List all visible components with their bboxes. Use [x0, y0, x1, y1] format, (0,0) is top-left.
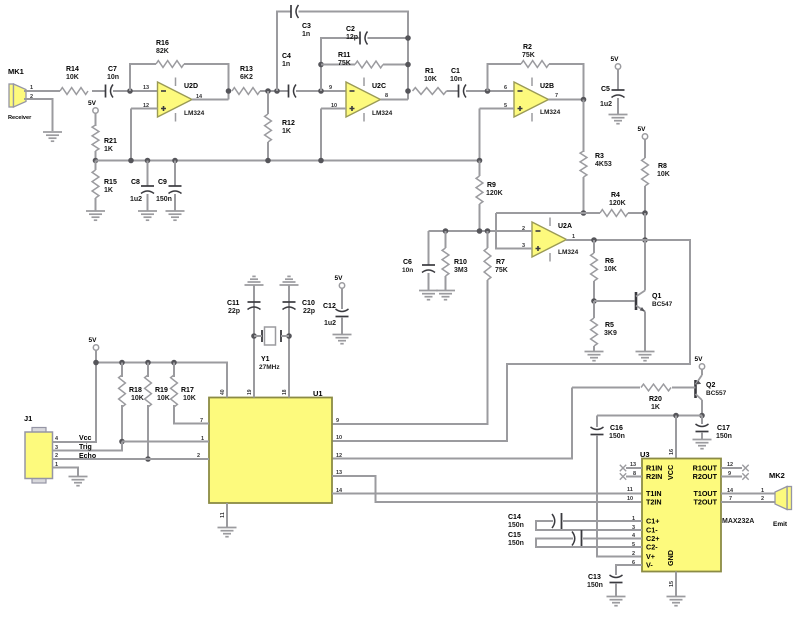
svg-text:10K: 10K [424, 76, 437, 83]
svg-text:Vcc: Vcc [79, 435, 92, 442]
wire U3 C2+ row [583, 538, 642, 540]
wire feedback trunk up from node to R16 row [130, 64, 156, 91]
resistor R16 [156, 61, 184, 68]
junction bus/U2D pin12 [128, 158, 134, 164]
op-amp U2D [158, 82, 193, 117]
svg-text:16: 16 [669, 449, 675, 455]
wire R18 bottom to Trig node [121, 405, 123, 442]
wire Q1 collector up [644, 240, 646, 291]
svg-text:1K: 1K [104, 146, 113, 153]
wire C12 to ground [341, 317, 343, 334]
wire MK1 pin2 down to ground [24, 99, 53, 131]
svg-text:6K2: 6K2 [240, 74, 253, 81]
no-connect X (R2IN) [620, 473, 626, 479]
svg-text:U2A: U2A [558, 223, 572, 230]
wire 5V to R21 [95, 113, 97, 126]
svg-text:7: 7 [729, 496, 732, 502]
svg-text:1: 1 [761, 488, 764, 494]
svg-text:R2OUT: R2OUT [693, 472, 718, 481]
wire R15 to ground [95, 198, 97, 211]
junction R13/R12 [265, 88, 271, 94]
junction output trunk/C2 [405, 35, 411, 41]
wire C4 to U2C pin9 [296, 90, 346, 92]
svg-text:C13: C13 [588, 574, 601, 581]
resistor R11 [355, 61, 383, 68]
wire C1 to U2B pin6 [466, 90, 514, 92]
wire R15 top [95, 161, 97, 171]
svg-text:12: 12 [727, 462, 733, 468]
svg-text:150n: 150n [609, 433, 625, 440]
junction R8/R4 [642, 210, 648, 216]
wire J1 pin3 stub (Trig) [53, 450, 62, 452]
svg-text:14: 14 [727, 488, 734, 494]
wire C14 loop to C1- row [536, 521, 642, 530]
wire 5V to R8 [644, 139, 646, 158]
svg-text:9: 9 [728, 471, 731, 477]
svg-text:T2OUT: T2OUT [693, 498, 717, 507]
svg-text:R4: R4 [611, 192, 620, 199]
svg-text:5V: 5V [89, 337, 98, 344]
wire feedback up to R2 [488, 64, 522, 91]
U3 pin12 stub R1OUT no-connect [721, 467, 742, 469]
U3 pin13 stub R1IN no-connect [626, 467, 642, 469]
ground (Q1) [636, 352, 655, 361]
ground (U3) [667, 597, 686, 606]
svg-text:19: 19 [247, 389, 253, 395]
capacitor C2 [359, 32, 361, 45]
svg-text:150n: 150n [716, 433, 732, 440]
wire R19 bottom to Echo row [147, 405, 149, 459]
wire R12 to bus [267, 142, 269, 161]
capacitor C10 [283, 301, 296, 303]
resistor R13 [232, 88, 260, 95]
wire R14 to C7 [92, 90, 105, 92]
svg-text:R21: R21 [104, 138, 117, 145]
wire route pin12 to R20 [332, 388, 572, 459]
junction R19 top [145, 360, 151, 366]
ground (C6) [419, 291, 438, 300]
junction U2B output/R3 [581, 97, 587, 103]
svg-text:1u2: 1u2 [130, 196, 142, 203]
wire U2D pin12 from bus [131, 108, 158, 110]
svg-text:C12: C12 [323, 303, 336, 310]
svg-text:R2: R2 [523, 44, 532, 51]
wire R7 top lead [487, 231, 489, 248]
capacitor C6 [422, 264, 435, 266]
resistor R4 [600, 210, 628, 217]
ground (C8) [138, 211, 157, 220]
transistor Q1 BC547 [636, 291, 645, 312]
svg-text:GND: GND [666, 550, 675, 566]
inverted ground (C11) [245, 276, 264, 285]
junction R18/Trig [119, 439, 125, 445]
svg-text:Receiver: Receiver [8, 115, 32, 121]
svg-text:10n: 10n [402, 267, 413, 274]
capacitor C5 [612, 89, 625, 91]
svg-text:LM324: LM324 [540, 109, 561, 116]
svg-text:5: 5 [632, 542, 635, 548]
node bias bus left [93, 158, 99, 164]
wire to U1 pin10 (feedback loop right/down) [332, 240, 690, 441]
svg-text:1u2: 1u2 [324, 320, 336, 327]
svg-text:8: 8 [385, 93, 388, 99]
wire U3 C1+ row [563, 520, 642, 522]
U3 pin8 stub R2IN no-connect [626, 476, 642, 478]
svg-text:C3: C3 [302, 23, 311, 30]
wire R4 to R8 trunk [628, 212, 645, 214]
U3 pin9 stub R2OUT no-connect [721, 476, 742, 478]
svg-text:LM324: LM324 [558, 249, 579, 256]
capacitor C9 [169, 185, 182, 187]
wire C9 lead [174, 161, 176, 187]
transistor Q2 BC557 [696, 375, 703, 400]
resistor R19 [145, 375, 152, 407]
wire U1 XTAL2 pin vertical (C10/crystal) [288, 285, 290, 398]
svg-text:C11: C11 [227, 300, 240, 307]
wire U2A- input row [429, 230, 533, 232]
svg-text:VCC: VCC [666, 465, 675, 480]
junction crystal left [251, 333, 257, 339]
svg-text:150n: 150n [508, 522, 524, 529]
junction bus/C9 [172, 158, 178, 164]
wire U2A+ row from R4 node [496, 213, 532, 249]
svg-text:Trig: Trig [79, 444, 92, 451]
svg-text:18: 18 [282, 389, 288, 395]
wire C15 loop to C2- row [536, 539, 642, 548]
wire C6 to ground [428, 273, 430, 290]
svg-text:120K: 120K [486, 190, 503, 197]
svg-text:5V: 5V [335, 275, 344, 282]
capacitor C7 [105, 85, 107, 98]
wire U3 GND pin15 [675, 572, 677, 597]
svg-text:U2B: U2B [540, 83, 554, 90]
svg-text:1K: 1K [651, 404, 660, 411]
supply 5V (R8) [642, 134, 647, 139]
wire J1 pin2 stub (Echo) [53, 458, 62, 460]
no-connect X (R2OUT) [742, 473, 748, 479]
svg-text:C9: C9 [158, 179, 167, 186]
ground (R15) [86, 211, 105, 220]
svg-text:V-: V- [646, 561, 653, 570]
wire 5V to C5 [617, 69, 619, 90]
svg-text:5V: 5V [88, 100, 97, 107]
wire Q2 collector down [701, 400, 703, 416]
svg-text:1K: 1K [104, 187, 113, 194]
wire C8 to ground [147, 194, 149, 211]
svg-text:5V: 5V [638, 126, 647, 133]
wire U1 pin13 to U3 T2IN [332, 476, 642, 502]
svg-text:C1+: C1+ [646, 517, 659, 526]
resistor R8 [642, 158, 649, 186]
resistor R2 [521, 61, 549, 68]
capacitor C11 [248, 301, 261, 303]
junction bus/R12 [265, 158, 271, 164]
svg-text:4K53: 4K53 [595, 161, 612, 168]
junction output trunk/R11 [405, 62, 411, 68]
resistor R21 [92, 125, 99, 151]
svg-text:3K9: 3K9 [604, 330, 617, 337]
svg-text:R10: R10 [454, 259, 467, 266]
svg-text:10K: 10K [657, 171, 670, 178]
wire R6 top lead [593, 240, 595, 253]
wire R19 top lead [147, 363, 149, 378]
svg-text:9: 9 [329, 85, 332, 91]
resistor R12 [265, 114, 272, 142]
svg-text:10K: 10K [131, 395, 144, 402]
wire U2C pin10 vertical [320, 109, 322, 161]
resistor R3 [580, 151, 587, 177]
wire bias bus [96, 160, 480, 162]
wire U3 T1OUT to MK2 pin1 [721, 493, 776, 495]
svg-text:U1: U1 [313, 389, 323, 398]
wire R10 to ground [445, 276, 447, 290]
svg-text:75K: 75K [522, 52, 535, 59]
svg-text:LM324: LM324 [184, 110, 205, 117]
svg-text:R20: R20 [649, 396, 662, 403]
node C1/U2B- junction [485, 88, 491, 94]
wire R6 to Q1 base node [593, 281, 595, 301]
resistor R6 [591, 253, 598, 281]
svg-text:9: 9 [336, 418, 339, 424]
node U2D output / R13 [226, 88, 232, 94]
svg-text:10K: 10K [157, 395, 170, 402]
resistor R5 [591, 318, 598, 346]
resistor R10 [442, 248, 449, 276]
ground (C13) [607, 597, 626, 606]
svg-text:J1: J1 [24, 414, 32, 423]
svg-text:75K: 75K [338, 60, 351, 67]
no-connect X (R1IN) [620, 465, 626, 471]
wire U1 XTAL1 pin vertical (C11/crystal) [253, 285, 255, 398]
junction R18 top [119, 360, 125, 366]
wire U2C output [381, 99, 409, 101]
junction R11 input [318, 62, 324, 68]
svg-text:10n: 10n [450, 76, 462, 83]
supply 5V (J1 rail) [93, 345, 98, 350]
wire J1 pin4 stub (Vcc) [53, 441, 62, 443]
svg-text:2: 2 [761, 496, 764, 502]
svg-text:27MHz: 27MHz [259, 364, 280, 371]
ground (R5) [585, 352, 604, 361]
resistor R17 [171, 375, 178, 407]
capacitor C8 [141, 185, 154, 187]
ground (C12) [333, 335, 352, 344]
wire R16 to U2D output trunk [184, 64, 229, 100]
junction R9 [477, 228, 483, 234]
svg-text:C10: C10 [302, 300, 315, 307]
svg-text:150n: 150n [508, 540, 524, 547]
svg-text:U2C: U2C [372, 83, 386, 90]
junction 5V rail [93, 360, 99, 366]
wire U3 T2OUT to MK2 pin2 [721, 501, 776, 503]
svg-text:15: 15 [669, 581, 675, 587]
svg-text:R9: R9 [487, 182, 496, 189]
svg-text:Emit: Emit [773, 521, 788, 528]
svg-text:C2: C2 [346, 26, 355, 33]
svg-text:Q1: Q1 [652, 293, 661, 300]
capacitor C16 [591, 434, 604, 436]
svg-text:10n: 10n [107, 74, 119, 81]
svg-text:R1: R1 [425, 68, 434, 75]
wire R9 top lead [479, 161, 481, 177]
op-amp U2C [346, 82, 381, 117]
wire R11 row left [321, 64, 355, 66]
ground (R10) [436, 291, 455, 300]
wire C6 top lead [428, 231, 430, 265]
wire C17 to ground [701, 432, 703, 439]
capacitor C17 [696, 431, 709, 433]
svg-text:10K: 10K [183, 395, 196, 402]
ground (MK1) [43, 132, 62, 141]
svg-text:C15: C15 [508, 532, 521, 539]
wire C16 lead down [596, 416, 598, 428]
ground (C17) [693, 440, 712, 449]
svg-text:1n: 1n [302, 31, 310, 38]
junction R17 top [171, 360, 177, 366]
svg-text:R2IN: R2IN [646, 472, 662, 481]
svg-text:R8: R8 [658, 163, 667, 170]
IC U1 (microcontroller) [209, 398, 332, 504]
wire Trig row to U1 pin1 [122, 441, 209, 443]
svg-text:R15: R15 [104, 179, 117, 186]
wire C16 down to U3 V+ pin [597, 435, 642, 557]
junction U2A output / Q1 collector / feedback [642, 237, 648, 243]
wire 5V to Q2 emitter [701, 369, 703, 375]
op-amp U2A [532, 222, 567, 257]
svg-text:C14: C14 [508, 514, 521, 521]
ground (J1) [69, 477, 88, 486]
svg-text:12: 12 [336, 453, 342, 459]
svg-text:R16: R16 [156, 40, 169, 47]
wire R3 trunk from U2B output [583, 100, 585, 153]
svg-text:R6: R6 [605, 258, 614, 265]
node at C7/U2D- junction [127, 88, 133, 94]
wire R21 to bus [95, 151, 97, 161]
svg-text:R5: R5 [605, 322, 614, 329]
wire R13 to C4 [260, 90, 288, 92]
inverted ground (C10) [280, 276, 299, 285]
svg-text:150n: 150n [587, 582, 603, 589]
svg-text:C7: C7 [108, 66, 117, 73]
svg-text:82K: 82K [156, 48, 169, 55]
crystal Y1 [254, 327, 289, 345]
wire U2B output [549, 99, 584, 101]
svg-text:10: 10 [336, 435, 342, 441]
resistor R15 [92, 170, 99, 198]
svg-text:12p: 12p [346, 34, 358, 41]
svg-text:3M3: 3M3 [454, 267, 468, 274]
wire R20 to Q2 base [672, 387, 696, 389]
wire C17 lead [701, 416, 703, 425]
svg-text:R7: R7 [496, 259, 505, 266]
wire C5 to ground [617, 98, 619, 114]
resistor R20 [641, 384, 671, 391]
capacitor C12 [336, 316, 349, 318]
wire Trig jog to J1 pin3 [61, 442, 122, 451]
svg-text:8: 8 [633, 471, 636, 477]
resistor R18 [119, 375, 126, 407]
junction R10 [443, 228, 449, 234]
svg-text:10: 10 [627, 496, 633, 502]
wire R10 top lead [445, 231, 447, 248]
svg-text:Q2: Q2 [706, 382, 715, 389]
wire 5V rail to U1 VCC top pin [96, 363, 228, 398]
wire U2C pin10 from bus [321, 108, 346, 110]
ground (C5) [609, 115, 628, 124]
svg-text:R18: R18 [129, 387, 142, 394]
svg-text:C1: C1 [451, 68, 460, 75]
svg-text:11: 11 [220, 512, 226, 518]
junction R6/R5/Q1 base [591, 298, 597, 304]
wire R17 top lead [173, 363, 175, 378]
junction R3/R4 row [581, 210, 587, 216]
wire U1 GND pin11 [226, 503, 228, 527]
svg-text:13: 13 [630, 462, 636, 468]
wire R2 to U2B output trunk [549, 64, 584, 100]
supply 5V (C12) [339, 283, 344, 288]
wire 5V to C12 [341, 288, 343, 309]
op-amp U2B [514, 82, 549, 117]
svg-text:C17: C17 [717, 425, 730, 432]
supply 5V (C5) [615, 64, 620, 69]
svg-text:BC547: BC547 [652, 301, 673, 308]
wire R18 top lead [121, 363, 123, 378]
wire R8 to R4 junction [644, 186, 646, 213]
junction bus/U2C pin10 [318, 158, 324, 164]
no-connect X (R1OUT) [742, 465, 748, 471]
svg-text:75K: 75K [495, 267, 508, 274]
svg-text:R19: R19 [155, 387, 168, 394]
junction R19/Echo [145, 456, 151, 462]
svg-text:C6: C6 [403, 259, 412, 266]
capacitor C14 [561, 513, 563, 529]
svg-text:T2IN: T2IN [646, 498, 662, 507]
svg-text:7: 7 [555, 93, 558, 99]
junction R7 [485, 228, 491, 234]
resistor R14 [60, 88, 88, 95]
wire R20 row from U1 pin12 route [572, 387, 640, 389]
capacitor C13 [610, 582, 623, 584]
svg-text:MK2: MK2 [769, 471, 785, 480]
svg-text:R13: R13 [240, 66, 253, 73]
svg-text:MK1: MK1 [8, 67, 24, 76]
wire 5V down to Vcc row [61, 350, 96, 442]
svg-text:C8: C8 [131, 179, 140, 186]
resistor R1 [413, 88, 447, 95]
svg-text:C4: C4 [282, 53, 291, 60]
svg-text:Y1: Y1 [261, 356, 270, 363]
svg-text:BC557: BC557 [706, 390, 727, 397]
svg-text:1u2: 1u2 [600, 101, 612, 108]
wire R5 to ground [593, 346, 595, 351]
wire U2B pin5 row [480, 108, 515, 110]
wire C3 to U2C output trunk [299, 12, 409, 100]
junction crystal right [286, 333, 292, 339]
svg-text:R3: R3 [595, 153, 604, 160]
svg-text:1: 1 [632, 516, 635, 522]
svg-text:3: 3 [632, 525, 635, 531]
ground (U1) [218, 528, 237, 537]
wire U3 VCC pin16 [675, 416, 677, 459]
svg-text:22p: 22p [228, 308, 240, 315]
svg-text:13: 13 [143, 85, 149, 91]
wire C2 to output trunk [368, 37, 409, 39]
svg-text:1n: 1n [282, 61, 290, 68]
svg-text:5V: 5V [695, 356, 704, 363]
junction bus/R9 [477, 158, 483, 164]
junction C2/R11 input trunk [318, 88, 324, 94]
transducer MK1 (Receiver) [9, 84, 26, 107]
